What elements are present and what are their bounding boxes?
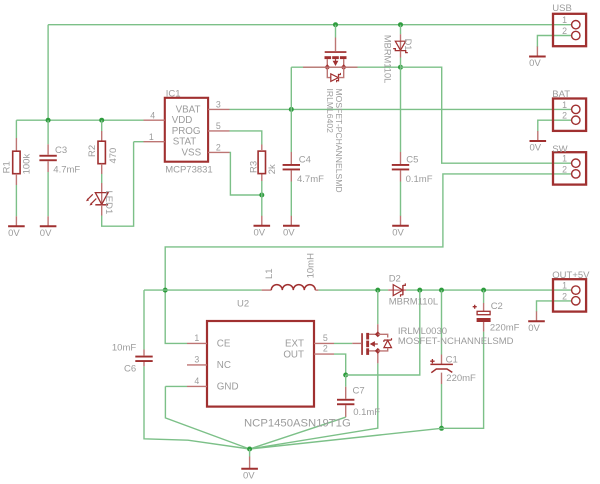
wire STAT to IC1 pin 1 [134, 141, 144, 143]
svg-text:R2: R2 [87, 145, 98, 157]
svg-text:100k: 100k [22, 154, 33, 175]
svg-text:1: 1 [562, 15, 567, 25]
svg-text:OUT: OUT [283, 349, 304, 360]
wire C3 bottom lead [47, 172, 49, 216]
wire R3 bottom lead [261, 181, 263, 195]
svg-text:2: 2 [562, 164, 567, 174]
wire Q1 left terminal down to VBAT [290, 67, 292, 109]
svg-text:0V: 0V [8, 228, 20, 239]
capacitor C5 [392, 164, 409, 166]
U2 pin 5 (EXT) [314, 342, 334, 344]
svg-text:1: 1 [194, 333, 199, 343]
svg-text:U2: U2 [237, 299, 249, 310]
U2 pin 1 (CE) [187, 342, 207, 344]
svg-text:OUT+5V: OUT+5V [552, 270, 590, 281]
wire D2 cathode to OUT connector pin 1 [406, 289, 572, 291]
wire OUT sense up to output rail [346, 290, 420, 375]
wire U2 GND pin [165, 385, 187, 387]
svg-text:D2: D2 [389, 274, 401, 285]
svg-text:0V: 0V [40, 228, 52, 239]
wire Q2 source to ground point [250, 363, 378, 449]
svg-text:3: 3 [216, 100, 221, 110]
svg-text:1: 1 [562, 100, 567, 110]
wire D1 anode lead [400, 25, 402, 35]
transistor Q1 IRLML6402 P-MOSFET [335, 38, 337, 52]
wire left drop from +5V rail [47, 25, 49, 121]
svg-text:C5: C5 [406, 154, 418, 165]
wire Q1 source-drain line [291, 66, 400, 68]
wire C2 bottom to C1 node [442, 332, 484, 429]
svg-text:0V: 0V [530, 143, 542, 154]
wire R3 node to ground [261, 195, 263, 216]
U2 pin 3 (NC) [187, 364, 207, 366]
wire R1 bottom lead [15, 185, 17, 216]
wire IC1 pin 5 to R3 [230, 131, 262, 145]
svg-text:CE: CE [217, 339, 231, 350]
U2 pin 2 (OUT) [314, 353, 334, 355]
capacitor C2 220mF [483, 303, 485, 311]
wire C2 top lead [483, 290, 485, 303]
junction D1 cathode node [398, 65, 403, 70]
svg-text:MOSFET-NCHANNELSMD: MOSFET-NCHANNELSMD [398, 336, 514, 347]
svg-text:10mH: 10mH [305, 253, 316, 278]
diode D1 MBRM110L [400, 34, 402, 50]
svg-text:C7: C7 [353, 386, 365, 397]
wire charger output to SW pin 1 [401, 67, 572, 163]
wire R2 top lead [101, 120, 103, 131]
wire USB pin 2 to ground [537, 36, 571, 48]
svg-text:470: 470 [108, 148, 119, 164]
wire USB +5V top rail [48, 24, 571, 26]
svg-text:MOSFET-PCHANNELSMD: MOSFET-PCHANNELSMD [334, 89, 344, 193]
svg-text:VDD: VDD [172, 115, 193, 126]
IC1 pin 1 (STAT) [144, 141, 165, 143]
svg-text:SW: SW [552, 144, 567, 155]
svg-text:5: 5 [216, 121, 221, 131]
wire U2 GND to ground point [165, 386, 249, 449]
svg-text:LED1: LED1 [103, 191, 114, 215]
connector OUT+5V [553, 279, 586, 311]
svg-text:0V: 0V [529, 58, 541, 69]
svg-text:4: 4 [194, 376, 199, 386]
junction D1 anode tap on +5V rail [398, 22, 403, 27]
svg-text:3: 3 [194, 355, 199, 365]
junction boost input rail / CE [163, 288, 168, 293]
wire C5 bottom lead [400, 182, 402, 217]
svg-text:NCP1450ASN19T1G: NCP1450ASN19T1G [244, 418, 351, 430]
svg-text:0V: 0V [243, 470, 255, 481]
svg-text:VSS: VSS [182, 147, 202, 158]
svg-text:R3: R3 [248, 161, 259, 173]
wire SW pin 2 to U2 CE / boost input rail [165, 174, 571, 344]
IC U2 NCP1450ASN19T1G [207, 321, 314, 407]
svg-text:0V: 0V [392, 227, 404, 238]
U2 pin 4 (GND) [187, 385, 207, 387]
ground USB 0V [536, 47, 538, 57]
wire BAT pin 2 to ground [538, 120, 572, 131]
junction main ground point [247, 447, 252, 452]
junction C4 / Q1 branch [289, 107, 294, 112]
junction R2 top [99, 118, 104, 123]
IC1 pin 2 (VSS) [208, 151, 229, 153]
svg-text:C3: C3 [55, 145, 67, 156]
wire OUT pin 2 to ground [537, 301, 572, 312]
svg-text:IRLML6402: IRLML6402 [325, 89, 335, 134]
IC1 pin 3 (VBAT) [208, 108, 229, 110]
svg-text:0V: 0V [528, 323, 540, 334]
wire LED1 cathode to STAT [102, 142, 134, 227]
svg-text:4: 4 [150, 110, 155, 120]
capacitor C3 [39, 155, 56, 157]
ground R3 0V [261, 216, 263, 226]
wire R1 top [15, 120, 17, 138]
svg-text:USB: USB [552, 3, 572, 14]
connector SW [553, 152, 586, 184]
resistor R2 [98, 141, 105, 164]
capacitor C4 [283, 164, 300, 166]
resistor R3 [258, 151, 265, 174]
ground C3 0V [47, 216, 49, 226]
svg-text:5: 5 [323, 333, 328, 343]
svg-text:L1: L1 [264, 268, 275, 279]
junction C2 tap [481, 288, 486, 293]
wire VDD rail to IC1 pin 4 [16, 119, 143, 121]
junction C3 / left drop [46, 118, 51, 123]
svg-text:PROG: PROG [172, 126, 201, 137]
svg-text:2k: 2k [267, 164, 278, 174]
ground main 0V [249, 457, 251, 469]
svg-text:10mF: 10mF [112, 342, 136, 353]
wire C3 top lead [47, 120, 49, 144]
junction OUT sense tap [417, 288, 422, 293]
svg-text:220mF: 220mF [490, 322, 520, 333]
svg-text:STAT: STAT [173, 137, 197, 148]
svg-text:BAT: BAT [552, 89, 570, 100]
svg-text:1: 1 [562, 154, 567, 164]
ground C4 0V [290, 216, 292, 226]
capacitor C7 [337, 399, 354, 401]
wire C4 top lead [290, 109, 292, 152]
svg-text:0V: 0V [283, 227, 295, 238]
svg-text:GND: GND [217, 382, 239, 393]
ground R1 0V [15, 216, 17, 226]
wire C1 ground link to ground point [250, 428, 442, 449]
svg-text:2: 2 [562, 26, 567, 36]
transistor Q2 IRLML0030 N-MOSFET [361, 333, 363, 355]
wire IC1 pin 2 to R3 bottom node [230, 152, 262, 195]
svg-text:0V: 0V [254, 227, 266, 238]
wire D1 cathode lead [400, 58, 402, 68]
svg-text:0.1mF: 0.1mF [353, 407, 380, 418]
ground C5 0V [400, 216, 402, 226]
wire C7 top lead [345, 375, 347, 387]
svg-text:1: 1 [562, 281, 567, 291]
svg-text:R1: R1 [1, 161, 12, 173]
svg-text:0.1mF: 0.1mF [406, 174, 433, 185]
connector USB [553, 14, 586, 46]
junction Q1 gate tap on +5V rail [333, 22, 338, 27]
capacitor C1 220mF [430, 363, 453, 365]
svg-text:VBAT: VBAT [176, 104, 201, 115]
wire C5 top lead [400, 67, 402, 152]
wire C6 top lead [143, 290, 145, 349]
IC1 pin 4 (VDD) [144, 119, 165, 121]
wire U2 EXT to Q2 gate [334, 342, 352, 344]
wire C1 top lead [441, 290, 443, 354]
svg-text:MBRM110L: MBRM110L [383, 35, 393, 83]
IC1 pin 5 (PROG) [208, 130, 229, 132]
svg-text:1: 1 [149, 132, 154, 142]
svg-text:IC1: IC1 [166, 88, 181, 99]
svg-text:C2: C2 [491, 301, 503, 312]
junction C1/C2 ground link [439, 426, 444, 431]
svg-text:C6: C6 [124, 364, 136, 375]
wire Q1 gate lead [335, 25, 337, 38]
connector BAT [553, 99, 586, 131]
capacitor C6 [135, 356, 152, 358]
svg-text:D1: D1 [403, 39, 413, 51]
inductor L1 10mH [262, 289, 272, 291]
wire C4 bottom lead [290, 182, 292, 217]
wire boost rail: C6 to L1 [144, 289, 262, 291]
svg-text:2: 2 [216, 143, 221, 153]
wire C7 bottom to ground point [250, 417, 346, 449]
svg-text:220mF: 220mF [446, 373, 476, 384]
wire U2 OUT down [334, 354, 346, 375]
ground OUT 0V [536, 311, 538, 321]
svg-text:MCP73831: MCP73831 [165, 164, 213, 175]
svg-text:4.7mF: 4.7mF [53, 164, 80, 175]
svg-text:2: 2 [323, 344, 328, 354]
svg-text:EXT: EXT [285, 339, 304, 350]
diode D2 MBRM110L [388, 289, 406, 291]
junction Q2 drain tap [375, 288, 380, 293]
svg-text:C1: C1 [446, 354, 458, 365]
wire C6 bottom to ground point [144, 366, 250, 449]
svg-text:MBRM110L: MBRM110L [389, 296, 438, 307]
wire ground point stub [249, 449, 251, 457]
svg-text:4.7mF: 4.7mF [297, 174, 324, 185]
junction C1 tap [439, 288, 444, 293]
wire L1 to D2 anode [318, 289, 388, 291]
svg-text:NC: NC [217, 360, 231, 371]
ground BAT 0V [537, 131, 539, 141]
wire C1 bottom lead [441, 384, 443, 428]
junction C7 / OUT sense [343, 373, 348, 378]
op-amp/IC U1: IC1 MCP73831 [165, 98, 208, 162]
svg-text:2: 2 [562, 291, 567, 301]
svg-text:2: 2 [562, 111, 567, 121]
junction R3 bottom / VSS [259, 193, 264, 198]
wire Q2 drain up to switch node [377, 290, 379, 324]
resistor R1 [13, 151, 20, 174]
svg-text:C4: C4 [299, 154, 311, 165]
wire VBAT: IC1 pin 3 to BAT pin 1 [230, 108, 572, 110]
wire R2 to LED1 [101, 174, 103, 183]
LED LED1 [101, 193, 103, 205]
